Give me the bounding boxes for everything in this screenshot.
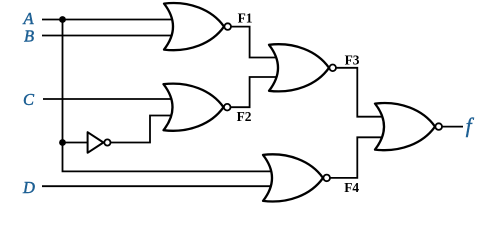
svg-text:C: C [23,90,35,109]
NOR gate U5 (output) [375,103,435,150]
wire B input [42,35,176,37]
wire A input [42,19,176,21]
svg-text:D: D [22,178,35,197]
NOR gate U3 (F3) [269,44,329,91]
wire inverter output to F2 [107,116,175,143]
wire f output [439,126,463,128]
svg-text:A: A [23,9,35,28]
wire F4 to U5 [327,137,387,178]
wire A-branch vertical to F4 [63,20,276,172]
wire F1 to F3 [228,27,281,58]
bubble U5 [435,123,442,130]
wire F2 to F3 [227,77,281,107]
svg-text:F3: F3 [345,52,360,67]
bubble U1 [224,23,231,30]
svg-text:B: B [24,27,34,46]
svg-text:F2: F2 [237,109,252,124]
bubble U4 [323,175,330,182]
svg-text:F1: F1 [238,11,253,26]
junction node inverter input [59,139,66,146]
bubble U2 [224,104,231,111]
NOR gate U2 (F2) [164,84,224,131]
wire C input [43,98,176,100]
bubble inverter [104,139,110,145]
svg-text:f: f [466,114,475,138]
NOR gate U4 (F4) [263,154,323,201]
svg-text:F4: F4 [344,180,359,195]
bubble U3 [329,65,336,72]
wire D input [42,185,275,187]
junction node A [59,16,66,23]
inverter U6 [88,132,104,153]
NOR gate U1 (F1) [164,3,224,50]
wire inverter input [63,142,88,144]
wire F3 to U5 [333,68,387,117]
